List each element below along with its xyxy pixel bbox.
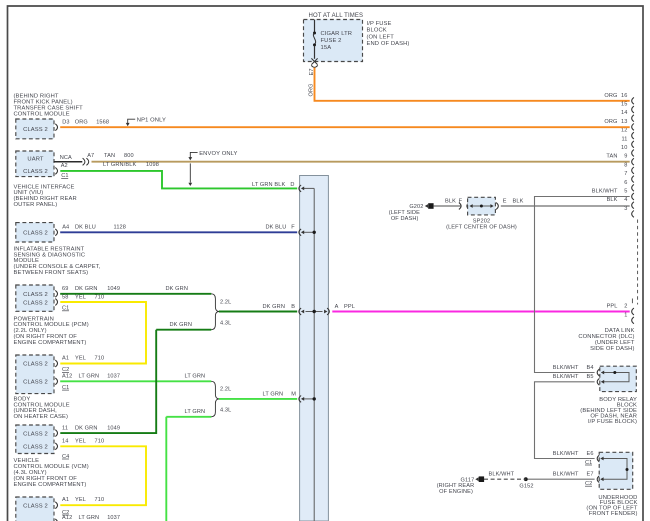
svg-text:14: 14	[62, 439, 68, 445]
wire A12 LT GRN 1037 from BCM to 2.2L brace	[60, 374, 211, 391]
svg-text:D3: D3	[62, 119, 69, 125]
svg-text:1037: 1037	[107, 374, 120, 380]
svg-text:LT GRN: LT GRN	[79, 515, 100, 521]
svg-text:TAN: TAN	[104, 153, 115, 159]
wire NCA stub from UART	[54, 155, 83, 162]
wire BLK F from G202 to splice SP202	[434, 198, 470, 209]
svg-text:ENGINE COMPARTMENT): ENGINE COMPARTMENT)	[14, 482, 87, 488]
svg-text:1098: 1098	[146, 162, 159, 168]
junction terminal F with splice	[299, 229, 316, 236]
svg-text:1037: 1037	[107, 515, 120, 521]
wire LT GRN M into junction	[219, 391, 297, 399]
svg-text:5: 5	[624, 189, 627, 195]
svg-text:LT GRN BLK: LT GRN BLK	[252, 182, 285, 188]
svg-text:YEL: YEL	[75, 294, 86, 300]
junction internal bus wire	[313, 188, 315, 521]
svg-text:I/P FUSE: I/P FUSE	[367, 21, 392, 27]
riser wire LT GRN from bottom module A12	[60, 417, 166, 521]
fuse element F1 (15A)	[313, 20, 316, 59]
svg-text:G152: G152	[519, 484, 533, 490]
svg-text:1049: 1049	[107, 425, 120, 431]
svg-text:CLASS 2: CLASS 2	[23, 431, 48, 437]
svg-text:D: D	[290, 182, 294, 188]
body relay block label	[580, 397, 637, 425]
svg-text:69: 69	[62, 286, 68, 292]
wire 14 YEL 710 from VCM to bottom module A1	[60, 439, 146, 506]
svg-text:11: 11	[62, 425, 68, 431]
NP1 ONLY flag arrow	[126, 118, 166, 127]
fuse output terminal X connector	[311, 58, 318, 67]
svg-text:BLK/WHT: BLK/WHT	[553, 472, 579, 478]
svg-text:HOT AT ALL TIMES: HOT AT ALL TIMES	[309, 13, 364, 19]
svg-text:A1: A1	[62, 497, 69, 503]
svg-text:B4: B4	[587, 365, 594, 371]
ENVOY ONLY flag arrow	[188, 151, 237, 186]
svg-text:10: 10	[621, 145, 627, 151]
svg-text:3: 3	[624, 206, 627, 212]
svg-text:CLASS 2: CLASS 2	[23, 127, 48, 133]
wire LT GRN 4.3L branch from riser	[166, 409, 211, 417]
svg-text:DK GRN: DK GRN	[75, 286, 97, 292]
svg-text:SIDE OF DASH): SIDE OF DASH)	[590, 346, 634, 352]
vehicle interface unit UART CLASS 2 box	[16, 151, 58, 177]
svg-text:2.2L: 2.2L	[220, 386, 231, 392]
svg-text:BLK: BLK	[445, 198, 456, 204]
svg-text:ENVOY ONLY: ENVOY ONLY	[199, 151, 237, 157]
svg-text:(ON LEFT: (ON LEFT	[367, 34, 395, 40]
svg-text:ORG: ORG	[604, 119, 617, 125]
svg-text:4: 4	[624, 197, 627, 203]
svg-text:710: 710	[95, 356, 105, 362]
svg-text:E6: E6	[587, 451, 594, 457]
svg-text:A7: A7	[87, 153, 94, 159]
ground G202	[389, 203, 434, 222]
svg-text:A2: A2	[61, 163, 68, 169]
svg-text:DK GRN: DK GRN	[263, 304, 285, 310]
data link connector DLC pin terminals 16-1	[621, 93, 638, 324]
svg-text:15: 15	[621, 102, 627, 108]
DLC wire color labels	[592, 93, 618, 310]
svg-text:DK GRN: DK GRN	[75, 425, 97, 431]
svg-text:CLASS 2: CLASS 2	[23, 445, 48, 451]
LT GRN engine-option brace 2.2L/4.3L	[211, 381, 231, 417]
svg-text:12: 12	[621, 128, 627, 134]
svg-text:1: 1	[624, 312, 627, 318]
inflatable restraint sensing and diagnostic module label	[14, 246, 101, 276]
svg-text:NCA: NCA	[60, 155, 72, 161]
svg-text:CLASS 2: CLASS 2	[23, 300, 48, 306]
svg-text:LT GRN: LT GRN	[185, 374, 206, 380]
svg-text:ORG: ORG	[604, 93, 617, 99]
junction terminal B to A pass-through with splice	[299, 308, 329, 315]
svg-text:FUSE 2: FUSE 2	[321, 38, 342, 44]
svg-text:E: E	[503, 198, 507, 204]
svg-text:LT GRN/BLK: LT GRN/BLK	[103, 162, 136, 168]
svg-text:PPL: PPL	[607, 304, 618, 310]
body relay block box	[600, 366, 637, 391]
svg-text:4.3L: 4.3L	[220, 320, 231, 326]
bottom module terminal A12 LT GRN 1037 labels	[62, 515, 120, 521]
svg-text:6: 6	[624, 180, 627, 186]
svg-text:CLASS 2: CLASS 2	[23, 380, 48, 386]
svg-text:CLASS 2: CLASS 2	[23, 230, 48, 236]
vehicle control module label	[14, 458, 89, 488]
inline connector chevrons on NCA/TAN wire	[83, 158, 89, 165]
wire A PPL to DLC pin 2	[332, 304, 629, 312]
VCM terminal 11 DK GRN 1049 labels	[62, 425, 120, 431]
svg-text:OF ENGINE): OF ENGINE)	[439, 489, 473, 495]
svg-text:BLK: BLK	[513, 198, 524, 204]
wire D3 ORG 1568 to DLC pin 13	[60, 119, 630, 127]
BCM terminal A1 YEL 710 labels	[62, 356, 104, 374]
svg-text:13: 13	[621, 119, 627, 125]
svg-text:NP1 ONLY: NP1 ONLY	[137, 118, 166, 124]
svg-text:1128: 1128	[114, 224, 127, 230]
svg-text:BLOCK: BLOCK	[367, 28, 387, 34]
bottom module terminal A1 YEL 710 labels	[62, 497, 104, 516]
svg-text:BLK/WHT: BLK/WHT	[489, 472, 515, 478]
inflatable restraint SDM CLASS 2 box	[16, 223, 58, 242]
svg-text:4.3L: 4.3L	[220, 408, 231, 414]
svg-text:DK BLU: DK BLU	[75, 224, 96, 230]
svg-text:BLK/WHT: BLK/WHT	[553, 374, 579, 380]
svg-text:1568: 1568	[96, 119, 109, 125]
svg-text:E7: E7	[587, 472, 594, 478]
svg-text:BLK/WHT: BLK/WHT	[553, 365, 579, 371]
svg-text:YEL: YEL	[75, 497, 86, 503]
svg-text:7: 7	[624, 171, 627, 177]
transfer case shift control module label	[14, 94, 84, 118]
svg-text:BLK/WHT: BLK/WHT	[592, 189, 618, 195]
svg-text:A12: A12	[62, 515, 72, 521]
svg-text:2: 2	[624, 304, 627, 310]
wire BLK/WHT from DLC pin 5 down to body relay block B4	[535, 197, 630, 373]
instrument panel harness junction block	[300, 176, 329, 521]
ground G117	[437, 476, 484, 495]
splice G152	[519, 477, 533, 489]
svg-text:9: 9	[624, 154, 627, 160]
data link connector DLC label	[578, 328, 634, 352]
DK GRN engine-option brace 2.2L/4.3L	[211, 294, 231, 330]
svg-text:A: A	[335, 304, 339, 310]
svg-text:END OF DASH): END OF DASH)	[367, 41, 410, 47]
svg-text:800: 800	[124, 153, 134, 159]
svg-text:8: 8	[624, 162, 627, 168]
bottom CLASS 2 module box	[16, 497, 58, 521]
svg-text:(LEFT CENTER OF DASH): (LEFT CENTER OF DASH)	[446, 225, 517, 231]
svg-text:F: F	[291, 224, 295, 230]
svg-text:LT GRN: LT GRN	[263, 391, 284, 397]
svg-text:710: 710	[95, 294, 105, 300]
svg-text:M: M	[291, 391, 296, 397]
underhood fuse block label	[586, 495, 637, 517]
svg-text:A1: A1	[62, 356, 69, 362]
svg-text:B5: B5	[587, 374, 594, 380]
svg-text:BLK/WHT: BLK/WHT	[553, 451, 579, 457]
svg-text:A12: A12	[62, 374, 72, 380]
wire DK GRN 4.3L branch from VCM vertical riser	[156, 322, 211, 330]
svg-text:YEL: YEL	[75, 439, 86, 445]
svg-text:CONTROL MODULE: CONTROL MODULE	[14, 111, 70, 117]
svg-text:CIGAR LTR: CIGAR LTR	[321, 31, 353, 37]
svg-text:BLK: BLK	[607, 197, 618, 203]
svg-text:B: B	[291, 304, 295, 310]
underhood fuse block terminals E6 E7	[553, 451, 600, 487]
riser wire DK GRN from VCM terminal 11	[60, 330, 156, 433]
wire DK GRN B into junction	[219, 304, 297, 312]
svg-text:OF DASH): OF DASH)	[391, 216, 419, 222]
svg-text:UART: UART	[27, 157, 43, 163]
svg-text:CLASS 2: CLASS 2	[23, 362, 48, 368]
I/P fuse block (CIGAR LTR FUSE 2 15A)	[304, 13, 410, 62]
svg-text:CLASS 2: CLASS 2	[23, 504, 48, 510]
splice SP202 box	[446, 197, 517, 230]
wire A2 LT GRN/BLK 1098 to instrument panel harness junction D	[60, 162, 297, 188]
svg-text:710: 710	[95, 439, 105, 445]
svg-text:16: 16	[621, 93, 627, 99]
wire BLK/WHT E7 from underhood fuse block to splice G152	[526, 478, 595, 480]
svg-text:YEL: YEL	[75, 356, 86, 362]
wire ORG from fuse E7 to DLC pin 16	[315, 68, 630, 101]
svg-text:58: 58	[62, 294, 68, 300]
transfer case shift control module CLASS 2 box	[16, 119, 58, 139]
vehicle interface unit label	[14, 184, 77, 208]
wire BLK/WHT dashed from G152 to ground G117	[484, 472, 526, 480]
svg-text:OUTER PANEL): OUTER PANEL)	[14, 202, 58, 208]
svg-text:LT GRN: LT GRN	[79, 374, 100, 380]
svg-text:BETWEEN FRONT SEATS): BETWEEN FRONT SEATS)	[14, 270, 89, 276]
junction terminal D	[299, 185, 314, 192]
svg-text:FRONT FENDER): FRONT FENDER)	[589, 511, 638, 517]
junction terminal M with splice	[299, 396, 316, 403]
wire BLK/WHT B5 from body relay block down to underhood fuse block E6	[535, 382, 595, 459]
svg-text:ENGINE COMPARTMENT): ENGINE COMPARTMENT)	[14, 340, 87, 346]
svg-text:CLASS 2: CLASS 2	[23, 169, 48, 175]
pin E7 label (rotated)	[309, 68, 315, 75]
svg-text:I/P FUSE BLOCK): I/P FUSE BLOCK)	[588, 419, 637, 425]
svg-text:11: 11	[621, 136, 627, 142]
wire A7 TAN 800 to DLC pin 9	[87, 153, 630, 162]
powertrain control module PCM CLASS 2 box	[16, 285, 58, 311]
svg-text:DK GRN: DK GRN	[166, 286, 188, 292]
body control module label	[14, 396, 70, 420]
svg-text:TAN: TAN	[606, 154, 617, 160]
svg-text:ON HEATER CASE): ON HEATER CASE)	[14, 414, 69, 420]
svg-text:DK GRN: DK GRN	[170, 322, 192, 328]
wire 69 DK GRN 1049 from PCM to 2.2L brace	[60, 286, 211, 294]
svg-text:2.2L: 2.2L	[220, 299, 231, 305]
underhood fuse block box	[599, 452, 633, 489]
svg-text:14: 14	[621, 110, 627, 116]
svg-text:CLASS 2: CLASS 2	[23, 292, 48, 298]
vehicle control module VCM CLASS 2 box	[16, 425, 58, 454]
svg-text:1049: 1049	[107, 286, 120, 292]
wire A4 DK BLU 1128 to junction F	[60, 224, 297, 232]
svg-text:15A: 15A	[321, 45, 332, 51]
powertrain control module label	[14, 316, 89, 346]
body relay block terminals B4 B5	[553, 365, 600, 385]
body control module BCM CLASS 2 box	[16, 355, 58, 394]
wire label ORG (rotated)	[309, 83, 315, 96]
svg-text:DK BLU: DK BLU	[266, 224, 287, 230]
svg-text:710: 710	[95, 497, 105, 503]
svg-text:ORG: ORG	[75, 119, 88, 125]
svg-text:A4: A4	[62, 224, 69, 230]
svg-text:LT GRN: LT GRN	[185, 409, 206, 415]
wire 58 YEL 710 from PCM to BCM A1	[60, 294, 146, 363]
wire E BLK from SP202 to DLC pin 4	[496, 198, 630, 209]
svg-text:PPL: PPL	[344, 304, 355, 310]
